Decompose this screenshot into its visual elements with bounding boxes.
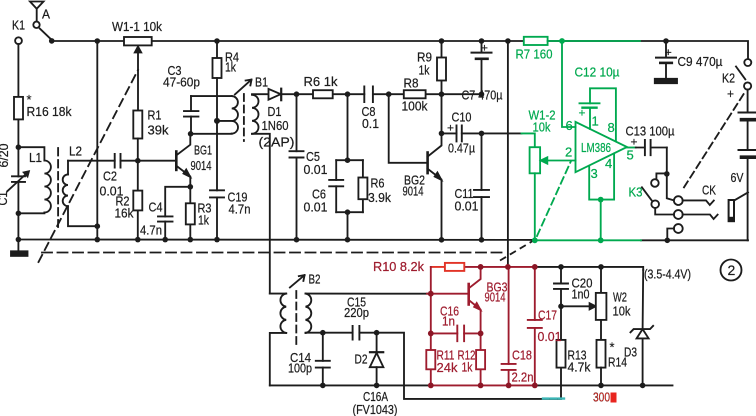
svg-text:24k: 24k xyxy=(437,360,458,375)
pins 3,4 to ground xyxy=(589,154,614,241)
svg-text:K2: K2 xyxy=(722,71,735,86)
dashed gang link W1-2 xyxy=(537,161,571,236)
svg-text:L2: L2 xyxy=(69,144,82,159)
node C16 left xyxy=(428,331,434,337)
wire secondary top to D1 xyxy=(252,93,269,95)
label 300 ohm glyph xyxy=(611,393,617,403)
node D2 bottom xyxy=(374,383,380,389)
capacitor C17 xyxy=(534,267,536,386)
circled 2 xyxy=(721,260,742,281)
svg-text:C12 10µ: C12 10µ xyxy=(575,65,620,80)
node C10 C11 xyxy=(479,131,485,137)
svg-text:A: A xyxy=(42,7,50,22)
node ground R2 xyxy=(135,237,141,243)
svg-text:1k: 1k xyxy=(419,63,430,78)
node rail x508 xyxy=(505,38,511,44)
node BG3 base xyxy=(428,291,434,297)
svg-text:C17: C17 xyxy=(538,308,557,323)
ground rail xyxy=(18,239,534,241)
wire K3 to middle contact xyxy=(655,208,674,215)
node ground x97 xyxy=(95,237,101,243)
bottom rail black right xyxy=(535,384,673,386)
svg-text:10k: 10k xyxy=(533,120,551,135)
svg-text:0.1: 0.1 xyxy=(362,116,379,131)
node L2 bottom xyxy=(95,223,101,229)
wiper wire to W2 xyxy=(561,305,590,307)
wire L2 to C2 to base xyxy=(68,160,176,162)
svg-text:R16 18k: R16 18k xyxy=(27,104,72,119)
svg-text:(FV1043): (FV1043) xyxy=(353,402,398,416)
wire collector junction to B1 bottom xyxy=(191,133,232,135)
node C14 top xyxy=(320,330,326,336)
wire B2 secondary bottom / C15 line xyxy=(306,333,562,399)
svg-text:1k: 1k xyxy=(225,60,236,75)
svg-text:0.47µ: 0.47µ xyxy=(448,141,475,156)
node C6R6 bottom xyxy=(345,209,351,215)
svg-text:0.01: 0.01 xyxy=(304,162,328,177)
svg-text:C18: C18 xyxy=(512,348,532,363)
B1 tap wire xyxy=(217,120,232,122)
svg-text:*: * xyxy=(610,340,615,355)
junction dots black xyxy=(16,38,671,388)
node C13 K3 xyxy=(664,171,670,177)
svg-text:1n0: 1n0 xyxy=(572,287,590,302)
capacitor C8 xyxy=(364,87,373,103)
svg-text:0.01: 0.01 xyxy=(538,329,562,344)
node green ground left xyxy=(532,237,538,243)
svg-text:D2: D2 xyxy=(355,352,368,367)
svg-text:5: 5 xyxy=(627,148,634,163)
svg-text:9014: 9014 xyxy=(403,184,424,199)
node L1 bottom xyxy=(16,211,22,217)
svg-text:4.7n: 4.7n xyxy=(229,202,251,217)
node rail C9 xyxy=(663,38,669,44)
svg-text:1k: 1k xyxy=(198,213,209,228)
capacitor C20 xyxy=(560,267,562,306)
svg-text:10k: 10k xyxy=(613,304,631,319)
red bottom rail xyxy=(431,384,535,386)
capacitor C7 xyxy=(481,41,483,94)
op-amp LM386 xyxy=(576,122,628,172)
svg-text:(3.5-4.4V): (3.5-4.4V) xyxy=(644,267,691,282)
svg-text:3.9k: 3.9k xyxy=(368,190,391,205)
node R7 right xyxy=(559,38,565,44)
node D3 bottom xyxy=(640,383,646,389)
node L1 top xyxy=(16,144,22,150)
svg-text:CK: CK xyxy=(702,183,716,198)
resistor R9 xyxy=(441,41,443,94)
capacitor C10 xyxy=(442,132,522,134)
capacitor C13 xyxy=(636,147,667,149)
node rail R4 xyxy=(214,38,220,44)
node D2 top xyxy=(374,330,380,336)
svg-text:D1: D1 xyxy=(268,104,282,119)
svg-text:(2AP): (2AP) xyxy=(259,135,295,150)
node bottom rail K3 xyxy=(665,238,671,244)
svg-text:C7 470µ: C7 470µ xyxy=(462,88,503,103)
node rail C7 xyxy=(479,38,485,44)
wire emitter to R3 xyxy=(189,187,191,240)
svg-text:47-60p: 47-60p xyxy=(163,75,200,90)
node C14 bottom xyxy=(320,383,326,389)
switch K3 arm xyxy=(642,187,652,200)
wire R9 node down to collector xyxy=(441,94,443,133)
resistor R6 (3.9k) xyxy=(362,160,364,212)
svg-text:4: 4 xyxy=(605,156,612,171)
resistor R7 xyxy=(524,37,548,45)
svg-text:1k: 1k xyxy=(462,360,473,375)
svg-text:1N60: 1N60 xyxy=(262,118,289,133)
node ground C5 xyxy=(294,237,300,243)
node C20 top xyxy=(558,264,564,270)
svg-text:16k: 16k xyxy=(115,206,134,221)
svg-text:300: 300 xyxy=(593,390,610,405)
node W2 top xyxy=(598,264,604,270)
svg-text:C1: C1 xyxy=(0,192,10,206)
diode D1 xyxy=(269,89,281,100)
inductor L1 xyxy=(18,147,44,160)
svg-text:R10 8.2k: R10 8.2k xyxy=(373,259,424,274)
svg-text:6V: 6V xyxy=(731,170,744,185)
svg-text:W2: W2 xyxy=(613,290,627,305)
svg-text:LM386: LM386 xyxy=(581,140,611,155)
node R14 bottom xyxy=(598,383,604,389)
jack contact springs xyxy=(683,200,714,205)
capacitor C6 xyxy=(335,160,337,212)
svg-text:K1: K1 xyxy=(12,18,25,33)
svg-text:6/20: 6/20 xyxy=(0,144,11,168)
wire vertical from rail to ground (x=97) xyxy=(96,41,98,240)
node R8 R9 xyxy=(439,91,445,97)
dashed link CK to K2 xyxy=(684,94,744,188)
svg-text:+: + xyxy=(447,123,454,135)
svg-text:1: 1 xyxy=(592,114,599,129)
resistor R2 xyxy=(133,191,142,211)
B1 arrow xyxy=(235,80,251,94)
svg-text:+: + xyxy=(727,86,734,101)
capacitor C12 pin1 to pin8 xyxy=(590,88,616,141)
svg-text:C2: C2 xyxy=(103,169,117,184)
svg-text:K3: K3 xyxy=(629,185,643,200)
core L1/L2 xyxy=(57,148,59,227)
capacitor C3 xyxy=(190,96,192,134)
svg-text:D3: D3 xyxy=(624,345,637,360)
svg-text:100p: 100p xyxy=(288,361,312,376)
ground under C9 xyxy=(655,79,677,83)
red supply rail xyxy=(464,266,535,268)
node ground BG2 xyxy=(439,237,445,243)
svg-text:+: + xyxy=(481,43,488,55)
svg-text:9014: 9014 xyxy=(191,158,212,173)
node C8 base xyxy=(386,91,392,97)
svg-text:8: 8 xyxy=(608,120,615,135)
B2 core xyxy=(295,291,297,344)
svg-text:C4: C4 xyxy=(149,200,163,215)
wire feed line x=508 xyxy=(507,41,509,267)
node C7 bottom xyxy=(479,91,485,97)
node rail x97 xyxy=(95,38,101,44)
green ground rail xyxy=(535,239,641,241)
node R12 bottom xyxy=(478,383,484,389)
capacitor C16 xyxy=(431,332,481,334)
transformer B2 secondary xyxy=(306,294,312,333)
svg-text:L1: L1 xyxy=(29,150,42,165)
svg-text:39k: 39k xyxy=(148,123,169,138)
wire bottom contact to rail xyxy=(667,229,674,241)
switch K2 xyxy=(744,59,751,66)
wire C3 top to B1 xyxy=(191,95,232,97)
svg-text:220p: 220p xyxy=(344,305,369,320)
node BG1 emitter xyxy=(188,184,194,190)
resistor R1 xyxy=(133,111,142,139)
svg-text:R6: R6 xyxy=(371,176,385,191)
wire to C6/R6 pair xyxy=(336,94,363,239)
junction dots red xyxy=(428,264,538,388)
teal dashes xyxy=(543,397,564,399)
node BG1 collector xyxy=(188,131,194,137)
transistor BG1 xyxy=(175,152,178,170)
svg-text:R6 1k: R6 1k xyxy=(304,74,338,89)
diode D2 xyxy=(376,333,378,386)
node C17 bottom xyxy=(532,383,538,389)
battery 6V xyxy=(747,90,749,241)
svg-text:2: 2 xyxy=(728,262,736,278)
wire K1 to R16 xyxy=(17,44,19,97)
node BG3 collector top xyxy=(478,264,484,270)
capacitor C11 xyxy=(481,133,483,239)
resistor R11 xyxy=(426,350,435,369)
black supply rail right xyxy=(535,267,643,270)
jack CK circles xyxy=(674,196,683,205)
node ground C4 xyxy=(162,237,168,243)
capacitor C14 xyxy=(322,333,324,386)
node ground C11 xyxy=(479,237,485,243)
wire base red part xyxy=(427,293,469,295)
svg-text:+: + xyxy=(579,108,586,120)
resistor R4 xyxy=(216,41,218,58)
svg-text:+: + xyxy=(665,47,672,59)
capacitor C2 xyxy=(115,154,121,168)
dashed gang link to W1-1 xyxy=(39,70,139,262)
resistor R10 xyxy=(445,263,464,271)
switch K3 contact a xyxy=(656,173,666,179)
node pins34 xyxy=(598,197,604,203)
red left vertical xyxy=(430,267,432,386)
wiper arrow pin2 xyxy=(546,160,576,162)
node C18 top xyxy=(505,264,511,270)
node BG2 collector xyxy=(439,131,445,137)
svg-text:3: 3 xyxy=(591,166,598,181)
transformer B1 secondary xyxy=(252,95,259,134)
node rail R9 xyxy=(439,38,445,44)
svg-text:B2: B2 xyxy=(309,272,321,287)
svg-text:2.2n: 2.2n xyxy=(512,370,534,385)
pin5 wire xyxy=(627,147,636,149)
node D1 out xyxy=(294,91,300,97)
ground xyxy=(17,240,19,252)
resistor R6 (1k) xyxy=(313,90,333,98)
svg-text:0.01: 0.01 xyxy=(455,199,479,214)
node K1/rail xyxy=(49,38,55,44)
transistor BG3 xyxy=(467,284,470,305)
node ground R3 xyxy=(188,237,194,243)
wire signal line xyxy=(297,93,482,95)
transistor BG2 xyxy=(426,153,429,174)
svg-text:100k: 100k xyxy=(402,99,428,114)
wire pin6 feed xyxy=(562,41,576,127)
svg-text:R1: R1 xyxy=(148,108,162,123)
capacitor C18 xyxy=(508,267,510,386)
junction dots green xyxy=(532,38,604,243)
green top rail xyxy=(548,40,640,42)
wire secondary bottom down to B2 xyxy=(252,134,270,294)
resistor R14 xyxy=(597,340,606,368)
capacitor C1 (variable) xyxy=(12,176,25,182)
wire top rail xyxy=(52,41,748,58)
bottom right rail xyxy=(641,239,748,241)
svg-text:1n: 1n xyxy=(442,314,455,329)
node ground C19 xyxy=(214,237,220,243)
capacitor C4 xyxy=(165,187,190,240)
B2 arrow xyxy=(290,276,304,288)
node R11 bottom xyxy=(428,383,434,389)
svg-text:4.7k: 4.7k xyxy=(568,360,591,375)
node C20 wiper xyxy=(558,304,564,310)
node green ground pins34 xyxy=(598,237,604,243)
wire C8 to BG2 base xyxy=(389,94,428,163)
switch K1 xyxy=(15,37,22,44)
svg-text:*: * xyxy=(27,92,32,107)
dashed gang link black part xyxy=(500,241,534,261)
transformer B2 primary xyxy=(270,293,286,295)
node BG3 emitter C16 xyxy=(478,331,484,337)
svg-text:W1-1 10k: W1-1 10k xyxy=(112,19,162,34)
resistor R16 xyxy=(14,97,23,120)
svg-text:4.7n: 4.7n xyxy=(140,223,162,238)
transformer B1 primary xyxy=(232,96,238,134)
svg-text:0.01: 0.01 xyxy=(304,200,328,215)
capacitor C9 xyxy=(665,41,667,79)
node C18 bottom xyxy=(506,383,512,389)
wire to W1-2 top xyxy=(522,133,535,147)
resistor R12 xyxy=(480,333,482,385)
potentiometer W1-2 xyxy=(530,147,541,173)
capacitor C5 xyxy=(296,94,298,239)
potentiometer W1-1 xyxy=(124,37,152,45)
wire C13 chain down xyxy=(667,148,674,201)
svg-text:B1: B1 xyxy=(255,75,268,90)
node BG1 base xyxy=(135,158,141,164)
node R6 C8 xyxy=(345,91,351,97)
bottom rail black left xyxy=(270,384,431,386)
node C17 top xyxy=(532,264,538,270)
capacitor C19 xyxy=(210,190,224,197)
wire B2 secondary top to BG3 base xyxy=(306,293,428,295)
node C6R6 top xyxy=(345,157,351,163)
resistor R8 xyxy=(404,90,426,98)
node ground x18 xyxy=(16,237,22,243)
B1 core xyxy=(243,94,245,141)
svg-text:BG1: BG1 xyxy=(194,143,212,158)
svg-text:2: 2 xyxy=(565,145,572,160)
capacitor C15 xyxy=(353,326,360,340)
svg-text:6: 6 xyxy=(566,118,573,133)
dashed boundary line xyxy=(42,252,502,254)
inductor L2 xyxy=(67,161,69,175)
svg-text:9014: 9014 xyxy=(485,290,506,305)
jack plug xyxy=(729,200,734,221)
potentiometer W2 xyxy=(600,267,602,340)
node ground C6 xyxy=(345,237,351,243)
svg-text:R8: R8 xyxy=(404,76,419,91)
antenna A xyxy=(30,2,44,22)
svg-text:R7 160: R7 160 xyxy=(516,47,553,62)
node B1 tap xyxy=(214,118,220,124)
svg-text:C10: C10 xyxy=(452,110,472,125)
resistor R3 xyxy=(186,203,195,224)
svg-text:C9 470µ: C9 470µ xyxy=(678,54,723,69)
resistor R13 xyxy=(560,306,562,340)
zener D3 xyxy=(642,270,645,385)
